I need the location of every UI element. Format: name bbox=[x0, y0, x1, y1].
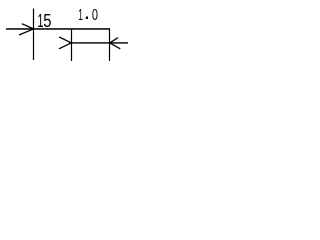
svg-text:0: 0 bbox=[92, 6, 98, 23]
svg-text:.: . bbox=[84, 0, 90, 24]
svg-text:1: 1 bbox=[78, 6, 83, 23]
svg-text:5: 5 bbox=[43, 10, 51, 31]
